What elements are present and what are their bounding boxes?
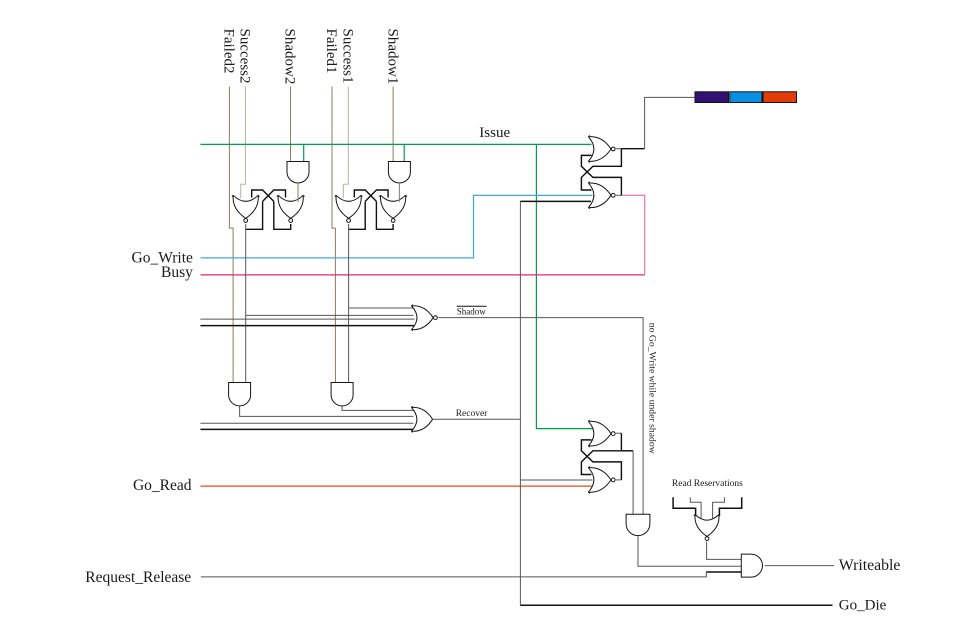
- svg-text:Shadow2: Shadow2: [282, 29, 298, 85]
- wire latch1 feedback F2 cross into left NOR: [252, 190, 274, 201]
- wire recover latch feedback F1: [581, 433, 621, 474]
- register flag blue box: [730, 92, 762, 103]
- nor-gate recover latch lower: [588, 466, 611, 493]
- wire latch2 feedback F2 cross into left NOR: [354, 190, 376, 201]
- wire Busy from issue-latch output (light pink): [622, 195, 645, 275]
- wire read-reservations outer bracket left: [673, 497, 696, 515]
- and-gate A4 (Failed1 AND latch2): [331, 383, 353, 406]
- nor-gate shadow (4-input): [412, 305, 434, 331]
- svg-text:Issue: Issue: [479, 125, 510, 141]
- nor-gate latch2 right (down): [379, 195, 407, 218]
- svg-text:Go_Die: Go_Die: [839, 597, 887, 613]
- label Failed1 (rotated): [323, 29, 339, 74]
- svg-text:Request_Release: Request_Release: [85, 569, 191, 586]
- wire Failed1 down to AND gate A4: [332, 87, 335, 383]
- wire Issue branch to recover latch: [536, 144, 592, 428]
- label Shadow2 (rotated): [282, 29, 298, 85]
- label Success2 (rotated): [237, 29, 253, 84]
- wire Go_Die horizontal: [520, 604, 832, 606]
- wire issue latch output to register flag: [621, 148, 644, 150]
- wire latch2 feedback F2 lower: [376, 201, 393, 229]
- wire Request_Release jog into AND W1: [706, 571, 741, 573]
- wire latch2 feedback F1 cross into right NOR: [365, 190, 388, 201]
- wire shadow-bus input 4: [200, 325, 414, 327]
- wire read-reservations inner prong left: [690, 497, 701, 518]
- label Success1 (rotated): [340, 29, 356, 84]
- wire shadow-bar to AND A5: [438, 318, 643, 515]
- wire shadow-bus input 3: [200, 318, 414, 320]
- svg-text:Writeable: Writeable: [839, 557, 901, 574]
- wire recover-bus input 4: [200, 428, 413, 430]
- svg-text:Failed2: Failed2: [221, 29, 237, 74]
- wire read-reservations NOR output to AND W1: [707, 542, 742, 560]
- wire Success2 into latch1 left NOR: [241, 87, 246, 199]
- wire Writeable output: [765, 565, 834, 567]
- wire A3 output to recover OR: [240, 406, 414, 417]
- overline of Shadow label: [457, 305, 487, 307]
- nor-gate latch1 left (down): [232, 195, 260, 218]
- svg-text:Read Reservations: Read Reservations: [672, 479, 743, 489]
- wire latch1 output down to AND A3: [245, 224, 247, 383]
- and-gate A3 (Failed2 AND latch1): [229, 383, 251, 406]
- or-gate recover (4-input): [411, 406, 432, 432]
- wire issue latch feedback F1: [581, 149, 621, 190]
- and-gate W1 (Writeable): [741, 554, 762, 577]
- nor-gate issue latch upper: [588, 136, 611, 163]
- register flag orange box: [763, 92, 797, 103]
- wire issue latch upper output stub: [616, 148, 622, 150]
- wire Failed2 down to AND gate A3: [229, 87, 233, 383]
- nor-gate read reservations: [694, 515, 720, 537]
- nor-gate recover latch upper: [588, 420, 611, 447]
- svg-text:Success1: Success1: [340, 29, 356, 84]
- svg-text:Failed1: Failed1: [323, 29, 339, 74]
- wire recover latch output down to AND A5: [632, 451, 634, 514]
- wire Go_Die vertical: [519, 201, 521, 605]
- wire Success1 into latch2 left NOR: [343, 87, 348, 199]
- and-gate A2 (Shadow1 AND Issue): [388, 162, 410, 184]
- svg-text:Shadow: Shadow: [457, 306, 487, 316]
- wire A2 output into latch2 right NOR: [398, 183, 400, 202]
- wire recover latch lower output stub: [616, 479, 622, 481]
- nor-gate latch1 right (down): [277, 195, 305, 218]
- wire Go_Read (orange): [201, 485, 593, 487]
- wire recover-bus input 3: [200, 422, 413, 424]
- svg-text:no Go_Write while under shadow: no Go_Write while under shadow: [647, 323, 658, 454]
- and-gate A1 (Shadow2 AND Issue): [287, 162, 309, 184]
- and-gate A5 (writeable qualifier): [626, 514, 650, 535]
- wire A1 output into latch1 right NOR: [297, 183, 299, 202]
- wire issue latch feedback F2: [581, 155, 621, 195]
- wire recover latch upper output stub: [616, 432, 622, 434]
- wire read-reservations inner prong right: [713, 497, 725, 518]
- wire Go_Die branch into recover latch lower NOR: [520, 479, 592, 481]
- svg-text:Success2: Success2: [237, 29, 253, 84]
- wire A4 output to recover OR: [342, 406, 413, 411]
- wire latch2 feedback F1 lower: [349, 201, 366, 229]
- wire Shadow2 into AND gate A1: [290, 87, 292, 162]
- svg-text:Busy: Busy: [161, 264, 193, 281]
- wire latch1 feedback F1 lower: [246, 201, 263, 229]
- register flag purple box: [695, 92, 729, 103]
- wire latch1 output to shadow NOR: [246, 314, 414, 316]
- wire latch2 output down to AND A4: [348, 224, 350, 383]
- nor-gate latch2 left (down): [335, 195, 363, 218]
- wire Shadow1 into AND gate A2: [392, 87, 394, 162]
- wire issue latch lower output stub: [616, 194, 622, 196]
- nor-gate issue latch lower: [588, 182, 611, 209]
- wire Issue branch to AND A2: [403, 144, 405, 161]
- svg-text:Shadow1: Shadow1: [384, 29, 400, 85]
- wire Go_Write (blue): [201, 195, 593, 258]
- wire Issue horizontal (green): [200, 143, 591, 145]
- wire read-reservations outer bracket right: [719, 497, 741, 515]
- wire Request_Release: [201, 572, 707, 577]
- wire A5 output to AND W1: [638, 536, 742, 567]
- wire to register flag rectangles: [645, 97, 695, 148]
- label no Go_Write while under shadow (rotated): [647, 323, 658, 454]
- wire recover latch output tail: [621, 450, 633, 452]
- wire latch2 output to shadow NOR: [349, 307, 414, 309]
- wire recover latch feedback F2: [581, 440, 621, 480]
- label Shadow1 (rotated): [384, 29, 400, 85]
- wire Busy horizontal (pink): [201, 274, 645, 276]
- label Failed2 (rotated): [221, 29, 237, 74]
- svg-text:Recover: Recover: [456, 409, 488, 419]
- wire recover output to Go_Die vertical: [433, 418, 521, 420]
- wire latch1 feedback F1 cross into right NOR: [263, 190, 286, 201]
- svg-text:Go_Read: Go_Read: [133, 477, 192, 494]
- wire Go_Die into issue latch lower NOR: [520, 200, 591, 202]
- wire Issue branch to AND A1: [303, 144, 305, 161]
- wire latch1 feedback F2 lower: [274, 201, 291, 229]
